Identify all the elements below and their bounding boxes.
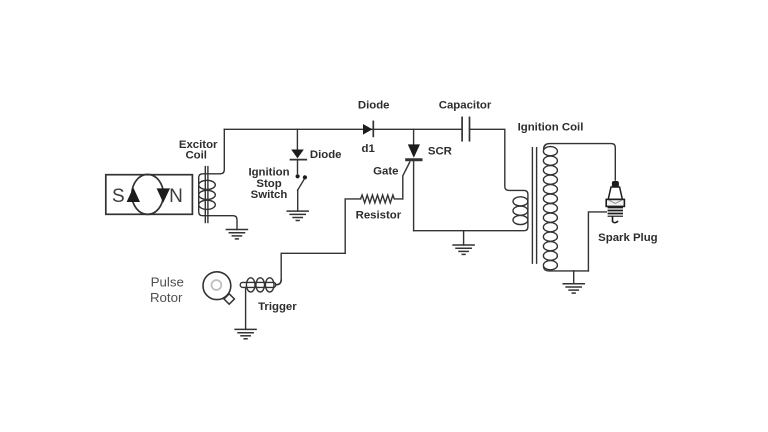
diode d1 triangle	[363, 124, 372, 135]
svg-text:Resistor: Resistor	[356, 210, 402, 222]
spark plug thread section	[608, 206, 623, 216]
svg-text:Coil: Coil	[185, 150, 207, 162]
wire SCR cathode down	[413, 160, 415, 231]
excitor coil core	[204, 167, 206, 223]
wire diode to switch	[297, 160, 299, 174]
svg-text:Capacitor: Capacitor	[439, 100, 492, 112]
switch contact dot top	[296, 174, 300, 178]
magnet arrow right (down)	[157, 188, 170, 202]
svg-text:Switch: Switch	[251, 189, 288, 201]
ground trigger	[235, 329, 256, 338]
svg-text:Ignition Coil: Ignition Coil	[518, 121, 584, 133]
capacitor plate right	[469, 117, 471, 140]
primary winding loop 3	[513, 215, 528, 224]
trigger coil core bar	[240, 282, 276, 287]
magnet rotation ellipse	[132, 174, 164, 214]
svg-text:Rotor: Rotor	[150, 290, 183, 305]
resistor zigzag	[361, 195, 403, 203]
diode (stop switch) triangle	[291, 150, 304, 159]
switch lever	[298, 179, 305, 190]
SCR cathode bar	[407, 158, 421, 161]
spark plug hex facet crease	[609, 200, 622, 203]
wire gate net to trigger	[276, 253, 345, 284]
trigger coil loop 3	[265, 278, 274, 292]
trigger coil loop 1	[246, 278, 255, 292]
SCR thyristor triangle	[408, 144, 420, 157]
pulse rotor tab	[224, 294, 234, 304]
ground ignition coil	[573, 271, 575, 284]
spark plug terminal	[612, 181, 619, 187]
secondary winding loops	[543, 147, 557, 270]
excitor coil winding loop 2	[199, 190, 216, 199]
ground excitor	[226, 230, 247, 239]
excitor coil winding spine and leads	[199, 129, 237, 229]
wire trigger left lead to ground	[245, 287, 247, 329]
wire ignition stop switch branch	[296, 129, 298, 149]
switch contact dot right	[303, 175, 307, 179]
wire SCR gate lead	[403, 162, 410, 199]
ground bottom bus	[463, 231, 465, 245]
svg-text:Ignition: Ignition	[248, 166, 289, 178]
excitor coil winding loop 3	[199, 200, 216, 209]
wire resistor left lead	[345, 199, 360, 253]
spark plug thread ribs	[608, 208, 623, 210]
svg-text:d1: d1	[362, 143, 376, 155]
svg-text:Gate: Gate	[373, 165, 398, 177]
svg-text:Trigger: Trigger	[258, 301, 297, 313]
svg-text:Diode: Diode	[310, 149, 342, 161]
wire switch to ground	[297, 190, 299, 211]
magnet flywheel body	[106, 175, 193, 215]
primary winding loop 2	[513, 206, 528, 215]
capacitor plate left	[461, 117, 463, 140]
pulse rotor outer circle	[203, 272, 231, 300]
svg-text:S: S	[112, 186, 125, 207]
pulse rotor inner circle	[212, 280, 222, 290]
diode d1 bar	[372, 121, 374, 136]
ground ignition stop switch	[287, 211, 308, 220]
svg-text:N: N	[169, 186, 183, 207]
trigger coil loop 2	[256, 278, 265, 292]
svg-text:SCR: SCR	[428, 145, 452, 157]
wire secondary bottom lead	[544, 268, 589, 271]
ignition coil core	[531, 148, 533, 264]
svg-text:Spark Plug: Spark Plug	[598, 232, 658, 244]
wire secondary top lead to spark plug	[544, 144, 616, 180]
spark plug electrode	[613, 217, 618, 223]
wire spark plug return	[588, 212, 606, 271]
spark plug hex body	[606, 199, 624, 206]
primary winding loop 1	[513, 197, 528, 206]
spark plug insulator	[608, 187, 622, 199]
wire trigger right lead up	[276, 280, 281, 285]
diode (stop switch) bar	[291, 159, 307, 161]
wire main top bus	[224, 128, 462, 130]
svg-text:Pulse: Pulse	[151, 275, 184, 290]
wire SCR anode branch	[413, 129, 415, 144]
excitor coil winding loop 1	[199, 180, 216, 189]
svg-text:Diode: Diode	[358, 100, 390, 112]
wire capacitor to primary, primary spine, bottom bus	[414, 129, 528, 230]
magnet arrow left (up)	[127, 188, 140, 203]
